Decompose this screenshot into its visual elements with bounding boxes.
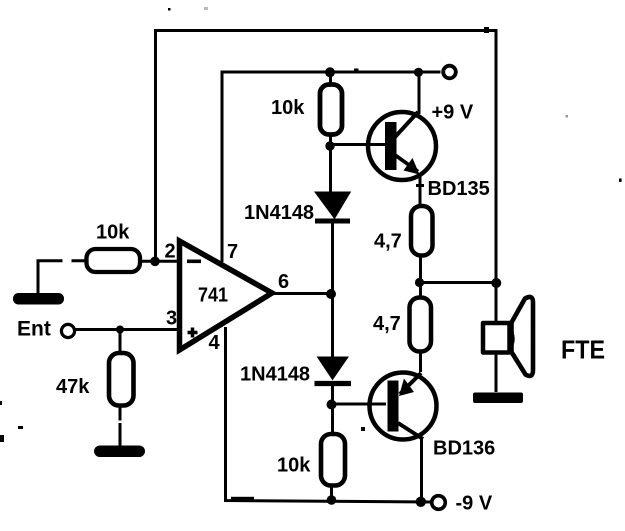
svg-text:2: 2 [165,241,176,263]
svg-text:4,7: 4,7 [373,313,401,335]
svg-text:7: 7 [227,241,238,263]
svg-text:1N4148: 1N4148 [244,202,314,224]
svg-text:4,7: 4,7 [374,231,402,253]
svg-text:4: 4 [209,332,221,354]
svg-text:741: 741 [198,285,228,307]
svg-text:6: 6 [278,271,289,293]
svg-text:BD136: BD136 [433,438,495,460]
svg-text:10k: 10k [277,455,311,477]
svg-text:-9 V: -9 V [456,493,493,515]
svg-text:+9 V: +9 V [432,102,474,124]
svg-text:FTE: FTE [561,335,605,365]
svg-text:Ent: Ent [17,318,51,341]
svg-text:1N4148: 1N4148 [240,364,310,386]
svg-text:10k: 10k [271,97,305,119]
svg-text:47k: 47k [56,376,90,398]
svg-text:BD135: BD135 [428,178,490,200]
svg-text:10k: 10k [96,222,130,244]
svg-text:3: 3 [166,308,177,330]
